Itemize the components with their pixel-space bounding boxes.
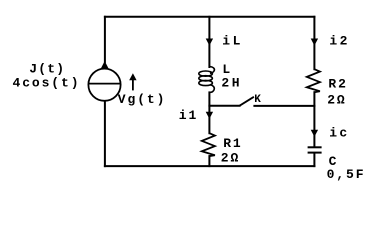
capacitor C top plate [308,146,322,148]
svg-text:2Ω: 2Ω [221,151,240,166]
wire middle branch upper [208,17,210,67]
current source chord line [88,83,120,85]
wire left vertical lower [104,101,106,166]
arrow iL [206,39,213,46]
svg-text:2Ω: 2Ω [327,92,346,107]
svg-text:Vg(t): Vg(t) [118,92,167,107]
svg-text:i2: i2 [329,34,349,49]
wire switch right segment [254,105,314,107]
inductor L coil [199,67,215,93]
resistor R2 zigzag [307,69,320,92]
wire right vertical middle [313,92,315,146]
wire middle branch lower [208,92,210,133]
svg-text:4cos(t): 4cos(t) [13,76,81,91]
svg-text:ic: ic [329,125,349,140]
wire right vertical below capacitor [313,153,315,166]
arrow i2 [311,39,318,46]
svg-text:K: K [254,94,263,106]
resistor R1 zigzag [202,133,215,156]
arrow ic [311,130,318,137]
wire top [105,16,315,18]
Vg(t) arrow [129,73,136,90]
svg-text:R2: R2 [328,77,347,92]
svg-text:J(t): J(t) [29,61,65,76]
svg-text:R1: R1 [223,136,242,151]
svg-text:2H: 2H [221,76,242,91]
current source J circle [88,69,120,101]
arrow i1 [206,112,213,119]
capacitor C bottom plate [308,152,322,154]
svg-text:0,5F: 0,5F [327,167,366,182]
switch K blade [240,97,254,106]
wire switch left segment [209,105,239,107]
wire middle branch below R1 [208,156,210,166]
wire bottom [105,165,315,167]
svg-text:i1: i1 [179,108,198,123]
wire left vertical upper [104,17,106,62]
svg-text:iL: iL [222,34,243,49]
wire right vertical upper [313,17,315,69]
current source arrowhead [101,61,109,68]
